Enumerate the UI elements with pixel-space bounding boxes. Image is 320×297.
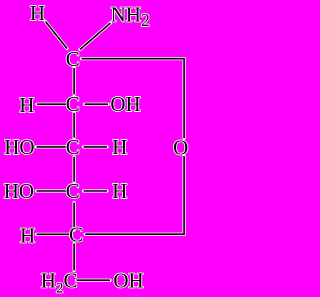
bond C4-C5 (72, 203, 75, 231)
bond C6-OH (77, 279, 111, 282)
ring bond C1-O (top + upper right) (82, 59, 185, 139)
svg-text:OH: OH (110, 92, 140, 116)
svg-text:C: C (69, 222, 83, 246)
bond C2-OH (85, 103, 109, 106)
bond HO-C3 (37, 145, 67, 148)
bond H-C5 (37, 233, 70, 236)
svg-text:C: C (66, 179, 80, 203)
svg-text:HO: HO (4, 135, 34, 159)
svg-text:H: H (30, 1, 45, 25)
svg-text:H: H (112, 179, 127, 203)
svg-text:C: C (66, 92, 80, 116)
bond C1-NH2 (diagonal) (80, 23, 111, 50)
bond C3-C4 (72, 157, 75, 182)
svg-text:H: H (112, 135, 127, 159)
bond H-C1 (diagonal) (46, 22, 68, 49)
bond C5-C6 (72, 244, 75, 271)
bond H-C2 (37, 103, 67, 106)
ring bond O-C5 (lower right + bottom) (85, 156, 184, 234)
bond C4-H (84, 189, 108, 192)
bond C2-C3 (72, 113, 75, 138)
svg-text:C: C (66, 135, 80, 159)
bond C3-H (84, 145, 108, 148)
svg-text:C: C (66, 47, 80, 71)
svg-text:OH: OH (113, 269, 143, 293)
svg-text:HO: HO (4, 179, 34, 203)
bond HO-C4 (37, 189, 67, 192)
svg-text:H: H (20, 223, 35, 247)
svg-text:O: O (173, 135, 188, 159)
svg-text:H: H (19, 93, 34, 117)
bond C1-C2 (72, 68, 75, 95)
